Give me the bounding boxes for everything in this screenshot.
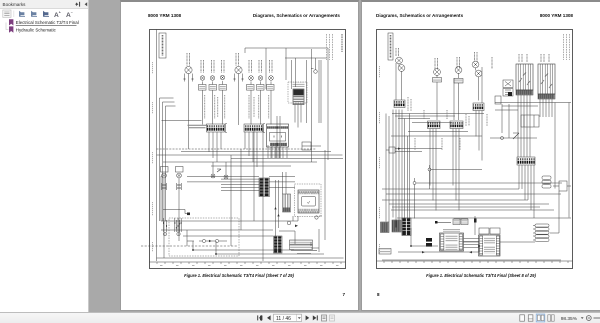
- diode D2: [513, 133, 519, 139]
- small box B1: [302, 142, 321, 150]
- splice ladder S1: [283, 194, 291, 212]
- expand icon 1: [19, 11, 25, 17]
- svg-text:8000 YRM 1308: 8000 YRM 1308: [540, 13, 574, 18]
- lamp L10: [177, 173, 182, 178]
- label FUEL1: [290, 240, 313, 245]
- relay K1: [293, 89, 304, 105]
- svg-text:+: +: [59, 10, 61, 14]
- wire bundles above rings: [163, 210, 188, 233]
- svg-text:Figure 1. Electrical Schematic: Figure 1. Electrical Schematic T3/T4 Fin…: [184, 273, 294, 278]
- arrow A3: [295, 225, 298, 228]
- arrow A4: [398, 148, 401, 150]
- nav: next/last: [306, 315, 318, 320]
- lamp bases: [162, 185, 181, 188]
- bookmark icon 2: [9, 26, 13, 32]
- headlamp HL2: [398, 65, 405, 72]
- wire labels above lamps: [187, 53, 272, 73]
- conn label strip: [443, 229, 460, 232]
- svg-text:Hydraulic Schematic: Hydraulic Schematic: [16, 27, 57, 32]
- battery label: [379, 249, 391, 255]
- bus above combs: [162, 120, 202, 122]
- wire bottom horizontals: [157, 221, 344, 258]
- wire lamp drops p2: [396, 63, 482, 120]
- relay K1 label: [293, 83, 305, 88]
- dashed zone box: [169, 218, 239, 256]
- svg-text:Bookmarks: Bookmarks: [3, 2, 27, 7]
- left pin strip SM: [392, 220, 401, 232]
- bottom toolbar: [0, 312, 600, 323]
- connector C-21: [199, 85, 207, 91]
- comb bottom P2E: [517, 157, 535, 165]
- junction N3: [410, 245, 412, 247]
- label 02 CABIN OPTN: [159, 33, 166, 58]
- cluster U1 dashed box: [295, 184, 322, 217]
- A plus icon: [54, 10, 61, 18]
- diode D1: [217, 169, 221, 172]
- comb drops: [209, 132, 257, 167]
- wire center verticals: [263, 116, 286, 261]
- panel header: [0, 0, 88, 8]
- connector C-24: [247, 85, 255, 91]
- ring C2: [315, 216, 322, 219]
- splice blob SP2: [474, 219, 477, 223]
- lamp L5: [235, 66, 242, 73]
- schematic page 2: [377, 33, 573, 263]
- comb P2D: [450, 121, 463, 129]
- sensor box SX: [542, 176, 551, 188]
- wire J2 feeders: [187, 176, 295, 190]
- label 06 FRAME LIGHTS: [388, 33, 393, 60]
- svg-text:Electrical Schematic T3/T4 Fin: Electrical Schematic T3/T4 Final: [16, 20, 79, 25]
- fuse ladder F1: [516, 64, 533, 90]
- ring splice RS1: [163, 232, 166, 235]
- wire lamp drops: [189, 73, 272, 149]
- connector C-26: [267, 85, 275, 91]
- junction box JB: [521, 115, 539, 127]
- label dashes: [291, 251, 317, 254]
- arrow A1: [274, 207, 276, 209]
- wire right risers: [271, 48, 328, 162]
- zone border line: [156, 30, 158, 262]
- page box: [274, 314, 302, 321]
- page 2: [361, 0, 600, 311]
- junction ring R2: [413, 178, 562, 219]
- arrow A6: [469, 251, 472, 253]
- wire left bundle: [160, 98, 166, 221]
- comb P2A: [394, 100, 405, 108]
- junction N4: [478, 245, 480, 247]
- headlamp HL3: [472, 61, 479, 68]
- module MD1: [533, 224, 549, 241]
- comb P2C: [428, 121, 441, 129]
- mini connector: [426, 238, 432, 247]
- wire below compound: [519, 165, 534, 218]
- connector C-22: [209, 85, 217, 91]
- wire top bus: [245, 48, 328, 89]
- conn labels CBb: [479, 228, 500, 234]
- A minus icon: [66, 10, 73, 18]
- lamp L9: [162, 173, 167, 178]
- svg-text:8: 8: [377, 292, 380, 297]
- arrow A2: [277, 214, 279, 216]
- lamp L12: [224, 175, 228, 179]
- splice blob: [508, 92, 512, 96]
- relay K1 dashed box: [288, 82, 307, 103]
- relay boxes RB: [503, 80, 513, 96]
- wire ladder drops: [518, 95, 552, 157]
- schematic page 1: [141, 30, 346, 266]
- left pin strip SA: [381, 222, 390, 233]
- label FUEL2: [290, 245, 313, 250]
- junction ring: [501, 137, 504, 140]
- conn block CB2: [479, 235, 501, 256]
- conn labels CA: [453, 219, 460, 225]
- svg-text:Figure 1. Electrical Schematic: Figure 1. Electrical Schematic T3/T4 Fin…: [426, 273, 536, 278]
- sender G1: [199, 239, 227, 242]
- connector box M1: [433, 78, 442, 83]
- connector C-23: [219, 85, 227, 91]
- lamp L8: [269, 76, 274, 81]
- svg-text:–: –: [71, 10, 73, 14]
- headlamp HL1: [396, 57, 403, 64]
- svg-text:7: 7: [342, 292, 345, 297]
- fuse ladder F2: [538, 64, 555, 94]
- zone ruler: [377, 260, 573, 262]
- frame: [150, 30, 346, 269]
- long bus horizontals: [382, 189, 571, 218]
- splice blob SP: [435, 221, 438, 224]
- tree line: [6, 23, 9, 30]
- lamp L3: [210, 76, 215, 81]
- lamp label text: [396, 48, 492, 70]
- aux box: [495, 96, 501, 104]
- svg-text:98.35%: 98.35%: [561, 316, 578, 322]
- wire left risers: [386, 110, 410, 236]
- collapse arrow: [85, 2, 88, 6]
- right small box RX: [553, 181, 571, 191]
- bookmarks panel: [0, 0, 89, 312]
- ring C1: [311, 69, 317, 74]
- comb F1: [516, 90, 533, 95]
- lamp M1: [434, 69, 441, 76]
- wire mid verticals: [231, 130, 280, 246]
- connector pin column J2: [259, 178, 270, 197]
- lamp L2: [200, 76, 205, 81]
- ring C3: [287, 221, 291, 225]
- connector comb CPS-2: [244, 124, 265, 133]
- zone ruler: [150, 261, 346, 263]
- connector box M2: [454, 79, 463, 84]
- wire labels mid p2: [408, 97, 487, 150]
- pin icon: [75, 2, 80, 7]
- tiny label row: [437, 219, 468, 223]
- margin marks p2: [379, 66, 381, 254]
- options button: [3, 10, 11, 17]
- headlamp HL4: [475, 70, 482, 77]
- left pin strip SB: [402, 218, 411, 236]
- svg-text:Diagrams, Schematics or Arrang: Diagrams, Schematics or Arrangements: [253, 13, 341, 18]
- harness label: [188, 125, 207, 128]
- sheet note: [327, 34, 333, 60]
- svg-text:8000 YRM 1308: 8000 YRM 1308: [148, 13, 182, 18]
- connector label row2: [161, 167, 169, 173]
- nav: first: [257, 315, 270, 320]
- frame: [377, 30, 573, 269]
- svg-text:Diagrams, Schematics or Arrang: Diagrams, Schematics or Arrangements: [376, 13, 464, 18]
- ring splice RS2: [177, 232, 180, 235]
- comb F2: [538, 94, 555, 99]
- bookmark icon 1: [9, 19, 13, 25]
- history icons: [322, 315, 335, 321]
- doc number: [341, 34, 343, 52]
- wire left bends: [160, 98, 176, 106]
- wire mid horizontals: [157, 148, 317, 150]
- margin marks: [152, 62, 154, 252]
- terminal block TB1: [267, 124, 289, 147]
- splice blob PS: [187, 213, 190, 216]
- lamp L1: [185, 66, 192, 73]
- junction N1: [192, 249, 194, 251]
- sheet note p2: [564, 34, 570, 60]
- lamp M2a: [455, 67, 462, 74]
- lamp L11: [211, 174, 215, 178]
- wire number labels: [205, 95, 269, 119]
- cluster U1: [298, 190, 319, 213]
- lamp L6: [249, 76, 254, 81]
- svg-text:11 / 46: 11 / 46: [276, 316, 291, 322]
- wire mid bus: [391, 111, 484, 211]
- comb P2B: [473, 103, 484, 111]
- relay box RL2: [386, 147, 442, 153]
- wire bottom tails: [382, 103, 561, 261]
- conn block CB1: [440, 233, 464, 251]
- wire bottom verticals: [161, 150, 325, 254]
- connector C-25: [257, 85, 265, 91]
- lamp L4: [220, 75, 225, 80]
- expand icon 2: [31, 11, 37, 17]
- wire lamp stubs: [185, 74, 243, 82]
- junction N2: [215, 253, 217, 255]
- right view icons: [520, 314, 554, 322]
- page 1: [120, 0, 359, 311]
- wire label ticks: [164, 222, 182, 229]
- arrow A5: [422, 251, 425, 253]
- ladder labels: [519, 54, 549, 62]
- junction ring R1: [428, 165, 482, 189]
- expand icon 3: [43, 11, 49, 17]
- lamp L7: [258, 76, 263, 81]
- CB1-CB2 links: [464, 216, 480, 248]
- connector pin column J3: [274, 236, 283, 253]
- connector comb CPS-1: [207, 124, 227, 133]
- wire right mids: [490, 103, 571, 218]
